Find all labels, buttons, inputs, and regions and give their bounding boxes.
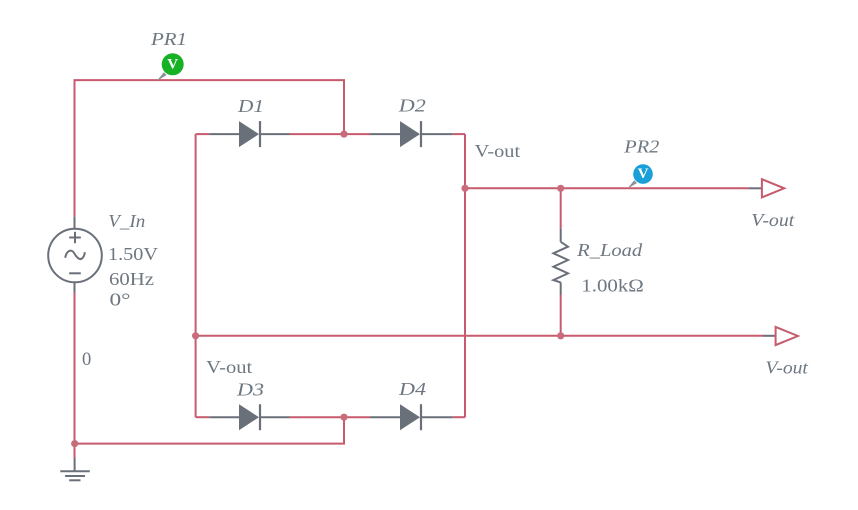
wire top output rail	[465, 187, 749, 189]
svg-text:D1: D1	[237, 96, 264, 116]
wire bottom diode row segment D3 to D4	[290, 416, 371, 418]
junction dot ground node	[71, 440, 78, 447]
svg-text:V-out: V-out	[206, 357, 252, 377]
wire top diode row segment D1 to D2	[290, 133, 371, 135]
svg-text:0: 0	[82, 350, 91, 370]
diode D1	[209, 121, 289, 147]
probe PR2	[627, 164, 652, 188]
svg-text:PR2: PR2	[623, 137, 659, 157]
svg-text:V-out: V-out	[765, 358, 809, 378]
junction dot right vertical to top rail	[461, 185, 468, 192]
svg-text:1.50V: 1.50V	[108, 244, 158, 264]
output connector top: gray stub	[749, 187, 763, 189]
ground	[60, 458, 90, 480]
wire R_Load top connection	[560, 188, 562, 228]
wire top diode row segment left of D1	[196, 133, 210, 135]
voltage source V_In	[48, 217, 102, 293]
wire right vertical of bridge	[464, 134, 466, 417]
resistor R_Load	[553, 228, 568, 294]
diode D4	[370, 404, 453, 430]
probe PR1	[157, 53, 184, 81]
svg-text:V: V	[638, 166, 649, 182]
junction dot D3-D4	[340, 414, 347, 421]
wire bottom output rail	[196, 335, 764, 337]
svg-text:V-out: V-out	[475, 141, 520, 161]
wire bottom diode row segment left of D3	[196, 416, 210, 418]
svg-text:V_In: V_In	[108, 211, 145, 231]
junction dot R_Load bottom	[557, 332, 564, 339]
svg-text:V-out: V-out	[751, 210, 795, 230]
svg-text:R_Load: R_Load	[576, 240, 643, 260]
wire R_Load bottom connection	[560, 295, 562, 336]
wire top-left run: source top to D1-D2 junction	[75, 80, 345, 217]
junction dot left vertical to bottom rail	[192, 332, 199, 339]
wire D3-D4 junction down to bottom jumper	[75, 417, 344, 443]
svg-text:60Hz: 60Hz	[109, 269, 154, 289]
svg-text:PR1: PR1	[150, 29, 187, 49]
wire left vertical of bridge	[195, 134, 197, 417]
output connector bottom: arrow	[776, 327, 798, 345]
wire bottom diode row segment right of D4	[453, 416, 465, 418]
diode D2	[370, 121, 453, 147]
wire source bottom to ground node	[74, 293, 76, 459]
junction dot R_Load top	[557, 185, 564, 192]
svg-text:V: V	[167, 56, 178, 72]
output connector bottom: gray stub	[763, 335, 776, 337]
svg-text:D2: D2	[398, 96, 426, 116]
svg-text:1.00kΩ: 1.00kΩ	[581, 276, 644, 296]
svg-text:D3: D3	[236, 379, 264, 399]
junction dot D1-D2	[340, 131, 347, 138]
diode D3	[209, 404, 289, 430]
svg-text:D4: D4	[398, 379, 426, 399]
output connector top: arrow	[762, 179, 784, 197]
svg-text:0°: 0°	[110, 290, 131, 310]
wire top diode row segment right of D2	[453, 133, 465, 135]
